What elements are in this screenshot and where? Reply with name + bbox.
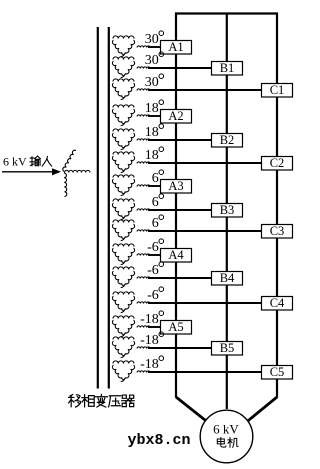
svg-text:A3: A3 <box>168 179 183 193</box>
wire: winding B5 output to box B5 <box>137 347 212 349</box>
thyristor cell box A5 <box>161 320 192 334</box>
transformer core line (left) <box>97 27 99 389</box>
secondary winding C1 (30° tap) <box>112 79 134 100</box>
thyristor cell box C3 <box>262 224 293 238</box>
wire: winding A1 output to box A1 <box>137 46 161 48</box>
secondary winding A4 (-6° tap) <box>112 244 134 265</box>
label: phase-shift angle 30° for B1 <box>145 52 164 68</box>
label: phase-shift angle 6° for B3 <box>152 194 164 210</box>
thyristor cell box A1 <box>161 40 192 54</box>
svg-text:6: 6 <box>152 216 159 231</box>
label: phase-shift angle -6° for C4 <box>147 287 163 303</box>
svg-text:C5: C5 <box>270 365 285 379</box>
svg-text:6 kV: 6 kV <box>3 155 27 169</box>
motor M1: 6 kV motor circle <box>200 410 253 463</box>
secondary winding B5 (-18° tap) <box>112 337 134 358</box>
svg-text:B1: B1 <box>220 61 235 75</box>
secondary winding A3 (6° tap) <box>112 175 134 196</box>
svg-text:C1: C1 <box>270 83 285 97</box>
label: phase-shift angle -6° for B4 <box>147 262 163 278</box>
wire: top bus joining phase buses A,B,C <box>175 12 278 14</box>
svg-text:6 kV: 6 kV <box>213 422 239 437</box>
svg-text:C2: C2 <box>270 156 285 170</box>
wire: winding A5 output to box A5 <box>137 326 161 328</box>
wire: bus C diagonal to motor <box>246 397 278 423</box>
secondary winding A5 (-18° tap) <box>112 316 134 337</box>
wire: winding C5 output to box C5 <box>137 371 262 373</box>
secondary winding B1 (30° tap) <box>112 57 134 78</box>
svg-text:-6: -6 <box>147 263 159 278</box>
label: 6 kV motor text <box>213 422 239 448</box>
svg-text:A4: A4 <box>168 248 184 262</box>
svg-text:A5: A5 <box>168 320 183 334</box>
label: phase-shift angle 30° for A1 <box>145 31 164 47</box>
thyristor cell box C1 <box>262 83 293 97</box>
svg-text:-18: -18 <box>140 357 159 372</box>
thyristor cell box A4 <box>161 248 192 262</box>
wire: phase bus C vertical <box>276 13 278 398</box>
secondary winding B4 (-6° tap) <box>112 267 134 288</box>
svg-text:6: 6 <box>152 195 159 210</box>
svg-text:A2: A2 <box>168 109 183 123</box>
transformer core line (right) <box>108 27 110 389</box>
label: 6 kV input <box>3 155 52 169</box>
label: phase-shift angle 30° for C1 <box>145 74 164 90</box>
thyristor cell box A3 <box>161 179 192 193</box>
svg-text:ybx8.cn: ybx8.cn <box>128 432 191 449</box>
wire: winding B1 output to box B1 <box>137 67 212 69</box>
wire: winding A3 output to box A3 <box>137 185 161 187</box>
wire: winding A2 output to box A2 <box>137 115 161 117</box>
svg-text:C3: C3 <box>270 224 285 238</box>
svg-text:18: 18 <box>145 148 159 163</box>
secondary winding A1 (30° tap) <box>112 36 134 57</box>
secondary winding B2 (18° tap) <box>112 129 134 150</box>
wire: winding C4 output to box C4 <box>137 302 262 304</box>
svg-text:30: 30 <box>145 53 159 68</box>
thyristor cell box B4 <box>212 271 243 285</box>
wire: phase bus A vertical <box>175 13 177 398</box>
label: phase-shift angle 18° for B2 <box>145 124 164 140</box>
thyristor cell box B5 <box>212 341 243 355</box>
svg-text:B5: B5 <box>220 341 235 355</box>
label: phase-shift angle -18° for B5 <box>140 332 163 348</box>
svg-text:-6: -6 <box>147 288 159 303</box>
thyristor cell box C5 <box>262 365 293 379</box>
svg-text:30: 30 <box>145 75 159 90</box>
wire: winding C3 output to box C3 <box>137 230 262 232</box>
svg-text:-18: -18 <box>140 333 159 348</box>
label: phase-shifting transformer (移相变压器) <box>69 394 135 407</box>
thyristor cell box C4 <box>262 296 293 310</box>
secondary winding C4 (-6° tap) <box>112 292 134 313</box>
label: phase-shift angle -18° for C5 <box>140 356 163 372</box>
thyristor cell box B2 <box>212 133 243 147</box>
thyristor cell box B3 <box>212 203 243 217</box>
label: phase-shift angle 6° for C3 <box>152 215 164 231</box>
svg-text:-18: -18 <box>140 312 159 327</box>
svg-text:B3: B3 <box>220 203 235 217</box>
label: phase-shift angle -6° for A4 <box>147 239 163 255</box>
wire: winding C1 output to box C1 <box>137 89 262 91</box>
svg-text:B2: B2 <box>220 133 235 147</box>
wire: winding B3 output to box B3 <box>137 209 212 211</box>
wire: winding B2 output to box B2 <box>137 139 212 141</box>
svg-text:B4: B4 <box>220 271 235 285</box>
svg-text:-6: -6 <box>147 240 159 255</box>
secondary winding C5 (-18° tap) <box>112 361 134 382</box>
wire: phase bus B vertical <box>226 13 228 410</box>
wire: input arrow <box>2 168 61 175</box>
secondary winding C2 (18° tap) <box>112 152 134 173</box>
svg-text:6: 6 <box>152 171 159 186</box>
svg-text:30: 30 <box>145 32 159 47</box>
primary winding U0 (star of three coils) <box>63 150 90 196</box>
thyristor cell box B1 <box>212 61 243 75</box>
secondary winding B3 (6° tap) <box>112 199 134 220</box>
thyristor cell box A2 <box>161 109 192 123</box>
label: phase-shift angle -18° for A5 <box>140 311 163 327</box>
label: phase-shift angle 18° for A2 <box>145 100 164 116</box>
label: phase-shift angle 6° for A3 <box>152 170 164 186</box>
thyristor cell box C2 <box>262 156 293 170</box>
secondary winding A2 (18° tap) <box>112 105 134 126</box>
svg-text:C4: C4 <box>270 296 285 310</box>
wire: winding A4 output to box A4 <box>137 254 161 256</box>
wire: bus A diagonal to motor <box>176 397 209 423</box>
label: phase-shift angle 18° for C2 <box>145 147 164 163</box>
wire: winding C2 output to box C2 <box>137 162 262 164</box>
svg-text:A1: A1 <box>168 40 183 54</box>
svg-text:18: 18 <box>145 125 159 140</box>
wire: winding B4 output to box B4 <box>137 277 212 279</box>
svg-text:18: 18 <box>145 101 159 116</box>
secondary winding C3 (6° tap) <box>112 220 134 241</box>
